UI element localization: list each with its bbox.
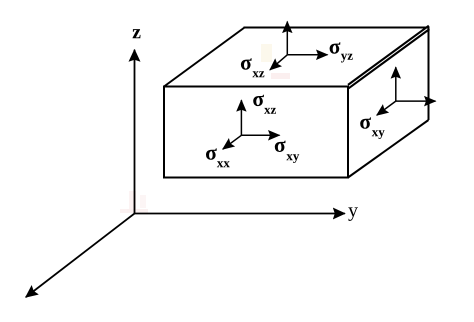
label sigma_xx (front face) (206, 148, 217, 159)
top face triad: right arrow (sigma yz) (287, 54, 327, 56)
label sigma_xz (front face) (253, 95, 264, 106)
right face triad: right arrow (396, 100, 436, 102)
box bottom-right edge (348, 120, 429, 178)
box top back edge (244, 27, 430, 29)
z axis label (133, 29, 141, 38)
front face triad: right arrow (241, 134, 279, 136)
box top-right double edge (348, 26, 429, 85)
z axis (134, 50, 136, 214)
box right back edge (428, 28, 430, 121)
front face triad: up arrow (240, 100, 242, 135)
box top-left edge (164, 28, 245, 87)
x axis (26, 214, 135, 298)
y axis label (348, 207, 358, 220)
watermark smudge near origin (120, 191, 148, 213)
box front face (164, 87, 348, 178)
label sigma_xz (top face) (241, 58, 252, 69)
top face triad: up arrow (286, 22, 288, 55)
top face triad: down-left arrow (sigma xz) (270, 55, 287, 70)
right face triad: up arrow (395, 67, 397, 101)
right face triad: down-left arrow (377, 101, 396, 115)
label sigma_yz (top face) (330, 42, 341, 53)
label sigma_xy (right face) (360, 117, 371, 128)
watermark smudge on top face (261, 44, 290, 79)
label sigma_xy (front face) (275, 141, 286, 152)
front face triad: down-left arrow (223, 135, 242, 149)
y axis (135, 213, 345, 215)
